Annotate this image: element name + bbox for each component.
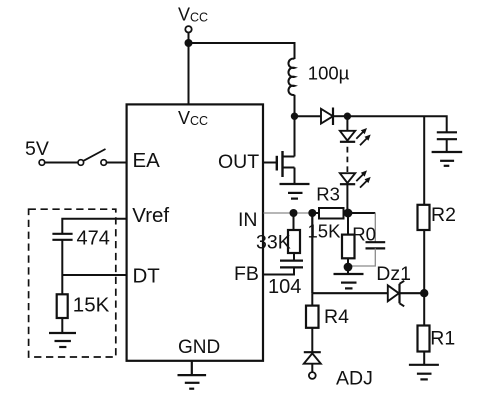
wire Dz1 to node — [401, 292, 425, 294]
ground (C2) — [432, 152, 463, 166]
node IN/33K junction — [290, 209, 298, 217]
wire to Dz1 — [312, 292, 388, 294]
svg-text:100µ: 100µ — [308, 63, 350, 84]
svg-text:104: 104 — [268, 276, 301, 298]
inductor L1 100u — [288, 59, 294, 95]
capacitor (parallel with R0) — [366, 242, 386, 248]
node R3/LED/R0 junction — [344, 209, 353, 218]
capacitor C2 (top right) — [437, 132, 457, 152]
svg-text:IN: IN — [238, 209, 258, 231]
svg-text:OUT: OUT — [218, 151, 259, 173]
svg-text:33K: 33K — [256, 232, 291, 254]
ground (15K) — [49, 333, 76, 347]
resistor R1 — [418, 326, 430, 352]
IC U1 box — [127, 104, 263, 360]
svg-text:474: 474 — [77, 227, 110, 249]
wire DT junction to 15K — [61, 275, 63, 294]
wire Vcc junction to inductor — [189, 43, 295, 59]
wire node to diode D1 — [295, 115, 322, 117]
ground (Q1 source) — [280, 184, 310, 199]
wire R0 to node — [347, 258, 349, 267]
wire node to ground — [347, 267, 349, 274]
svg-text:R3: R3 — [316, 183, 340, 204]
dashed box (feedback network) — [29, 209, 116, 357]
resistor 33K — [288, 230, 300, 253]
node IN/R4 junction — [308, 209, 316, 217]
svg-text:GND: GND — [178, 337, 220, 358]
resistor R2 — [418, 205, 430, 230]
diode D1 — [321, 108, 333, 126]
wire capacitor to FB pin — [263, 267, 294, 274]
svg-text:R1: R1 — [430, 327, 455, 349]
svg-text:R0: R0 — [352, 223, 376, 244]
wire 33K to capacitor 104 — [293, 253, 295, 261]
resistor R4 — [306, 306, 319, 328]
node diode/LED junction — [344, 113, 351, 120]
resistor R3 — [319, 208, 344, 219]
svg-text:Vref: Vref — [132, 204, 169, 227]
wire R1 to ground — [423, 352, 425, 365]
node Dz1/R2/R1 junction — [420, 289, 428, 297]
svg-text:R4: R4 — [324, 306, 349, 328]
wire R4 line (IN node down) — [311, 213, 313, 293]
node inductor/diode junction — [291, 113, 298, 120]
capacitor 474 — [52, 234, 72, 240]
node R0 bottom junction — [344, 263, 353, 272]
switch SW1 — [39, 149, 127, 165]
svg-text:5V: 5V — [25, 138, 49, 160]
wire LED node to LED1 — [346, 116, 348, 131]
terminal ADJ — [309, 372, 316, 379]
wire diode to ADJ terminal — [311, 364, 313, 372]
diode D2 (ADJ) — [304, 352, 321, 364]
ground (R1) — [409, 365, 439, 380]
wire node to R4 — [311, 293, 313, 305]
terminal Vcc — [185, 26, 191, 32]
wire 15K to ground — [61, 318, 63, 333]
wire Vcc terminal to junction — [188, 33, 190, 44]
wire R3 to LED node — [344, 212, 349, 214]
svg-text:EA: EA — [133, 149, 161, 172]
wire DT — [62, 274, 127, 276]
svg-text:ADJ: ADJ — [336, 368, 373, 390]
wire Vref — [62, 219, 127, 234]
wire cap branch bottom (gray) — [348, 248, 375, 266]
svg-text:R2: R2 — [431, 204, 456, 226]
wire R3 node to R0 — [347, 213, 349, 235]
wire R2 to Dz node — [423, 230, 425, 293]
wire Vcc junction to IC top — [188, 43, 190, 105]
svg-text:15K: 15K — [73, 294, 110, 317]
resistor R0 — [342, 235, 355, 259]
wire dashed (LED string) — [346, 147, 348, 172]
wire GND pin — [191, 361, 193, 375]
wire diode to LED node — [333, 115, 347, 117]
ground (R0) — [334, 274, 364, 288]
resistor 15K (dashed box) — [57, 294, 68, 318]
LED LED1 — [340, 128, 371, 145]
wire 474 to DT junction — [61, 240, 63, 275]
wire node to R1 — [423, 293, 425, 326]
wire LED2 to R3 node — [346, 184, 348, 213]
wire cap branch (gray) — [374, 213, 376, 242]
zener diode Dz1 — [388, 281, 404, 307]
wire top wire to R2 — [423, 116, 425, 205]
wire node to R3 — [312, 212, 319, 214]
node Vcc junction — [185, 39, 193, 47]
wire R3 node to cap branch (black part) — [348, 212, 375, 214]
capacitor 104 — [280, 261, 303, 268]
ground (IC GND) — [178, 375, 207, 389]
svg-text:Dz1: Dz1 — [376, 263, 411, 285]
wire LED node to top right — [347, 116, 446, 132]
wire 33K node down — [293, 213, 295, 230]
MOSFET Q1 — [263, 116, 295, 184]
wire R4 to diode — [311, 328, 313, 352]
LED LED2 — [340, 170, 371, 187]
wire IN (gray) — [264, 212, 313, 214]
svg-text:FB: FB — [234, 263, 259, 285]
wire inductor to node — [294, 95, 296, 116]
svg-text:DT: DT — [133, 265, 161, 288]
